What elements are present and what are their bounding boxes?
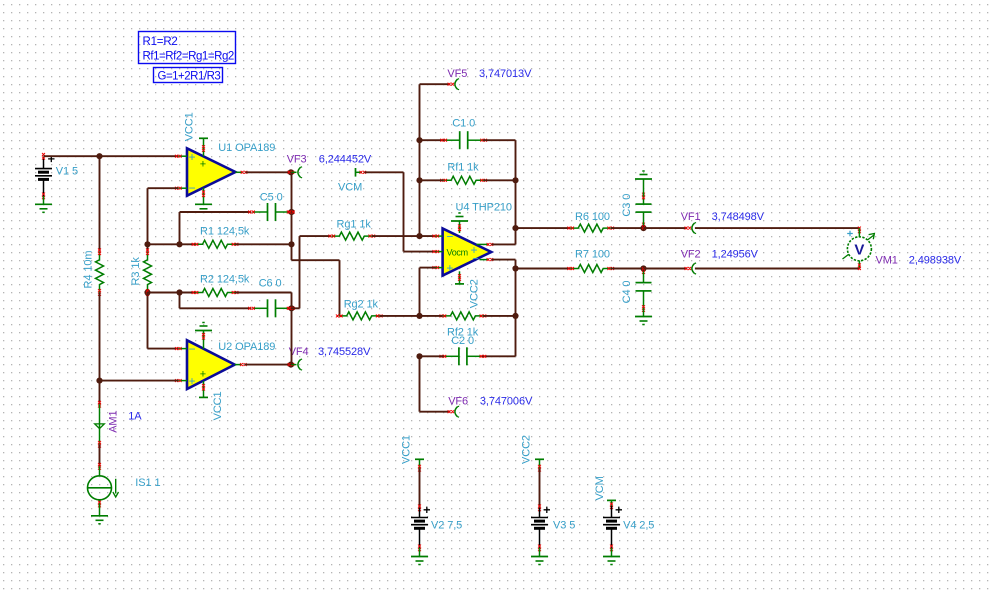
svg-text:VF6: VF6 bbox=[448, 395, 468, 407]
current source IS1 bbox=[88, 463, 161, 507]
wire to R2 bbox=[148, 292, 196, 294]
wire R6 to VF1 bbox=[611, 227, 644, 229]
U2 VCC1 flag bbox=[199, 381, 224, 420]
wire Rf2 leads bbox=[420, 315, 516, 317]
voltage source V4 bbox=[594, 476, 655, 551]
capacitor C5 bbox=[248, 191, 293, 221]
Rf2 label C2 bbox=[451, 335, 474, 347]
AM1 value bbox=[128, 410, 142, 422]
svg-text:U4 THP210: U4 THP210 bbox=[456, 201, 512, 213]
U4 input pins bbox=[433, 235, 443, 270]
svg-text:VCC1: VCC1 bbox=[184, 112, 196, 141]
svg-text:G=1+2R1/R3: G=1+2R1/R3 bbox=[158, 71, 221, 83]
svg-text:VF5: VF5 bbox=[447, 68, 467, 80]
svg-text:1,24956V: 1,24956V bbox=[712, 248, 759, 260]
svg-text:−: − bbox=[189, 342, 196, 356]
ground at V1 bbox=[35, 196, 52, 212]
wire R7 row bbox=[516, 268, 571, 270]
wire R2 right bbox=[235, 293, 292, 309]
ground at V2 bbox=[411, 548, 428, 565]
wire AM1 to IS1 bbox=[99, 444, 101, 466]
junction C3 bbox=[640, 223, 646, 232]
wire U1 out to VF3 bbox=[246, 171, 291, 173]
wire R6 row bbox=[516, 227, 571, 229]
junction V1/R4 bbox=[96, 153, 102, 159]
junction C6 right bbox=[288, 305, 295, 311]
wire R3 to U2- bbox=[148, 293, 179, 349]
svg-text:−: − bbox=[446, 229, 453, 243]
svg-text:VCM: VCM bbox=[594, 476, 606, 500]
U2 label bbox=[218, 341, 275, 353]
voltage source V3 bbox=[520, 435, 575, 551]
wire R7 node down bbox=[515, 269, 517, 316]
VM1 labels bbox=[876, 254, 962, 266]
U2 output pin bbox=[235, 363, 247, 366]
voltage pin VF5 bbox=[448, 79, 460, 90]
U1 label bbox=[218, 142, 275, 154]
resistor R7 bbox=[567, 248, 614, 272]
svg-text:−: − bbox=[472, 253, 478, 265]
capacitor C4 bbox=[621, 272, 651, 312]
voltage source V1 bbox=[35, 153, 78, 199]
svg-text:VF1: VF1 bbox=[681, 211, 701, 223]
wire U4+ from Rg2 node bbox=[420, 268, 436, 316]
svg-text:+: + bbox=[200, 159, 206, 171]
wire C6 branch bbox=[180, 293, 252, 309]
inverted ground at C3 bbox=[635, 171, 652, 196]
wire VCM to Vocm bbox=[365, 172, 436, 251]
svg-text:C4 0: C4 0 bbox=[621, 281, 633, 304]
svg-text:R6 100: R6 100 bbox=[575, 211, 610, 223]
inverted ground at U2 bbox=[195, 323, 212, 349]
wire crossover to Rg1 bbox=[292, 236, 332, 308]
svg-text:R7 100: R7 100 bbox=[575, 248, 610, 260]
ammeter AM1 bbox=[95, 401, 120, 448]
wire out- to node bbox=[492, 228, 516, 244]
wire C4 to VF2 bbox=[644, 268, 688, 270]
U1 input pins bbox=[175, 155, 187, 190]
svg-text:VF3: VF3 bbox=[287, 154, 307, 166]
svg-text:6,244452V: 6,244452V bbox=[319, 154, 372, 166]
wire R4 to U2+ junction bbox=[99, 292, 101, 404]
wire U1- to R3 bbox=[148, 188, 179, 244]
svg-text:−: − bbox=[189, 181, 196, 195]
svg-text:V4 2,5: V4 2,5 bbox=[623, 519, 654, 531]
wire Rg1 to U4- bbox=[372, 235, 436, 237]
VCM net flag bbox=[338, 168, 366, 193]
svg-text:AM1: AM1 bbox=[108, 410, 120, 432]
svg-text:3,747006V: 3,747006V bbox=[480, 395, 533, 407]
svg-text:3,745528V: 3,745528V bbox=[318, 346, 371, 358]
svg-text:Rf1 1k: Rf1 1k bbox=[447, 162, 479, 174]
junction C5 right bbox=[288, 209, 295, 215]
resistor R1 bbox=[192, 225, 250, 248]
wire out+ to node bbox=[492, 260, 516, 269]
wire VF5 node bbox=[420, 84, 451, 236]
capacitor C2 bbox=[440, 347, 487, 365]
wire Rf1 node down bbox=[515, 180, 517, 228]
VF4 labels bbox=[289, 346, 371, 358]
voltage source V2 bbox=[400, 435, 462, 551]
svg-text:VCC1: VCC1 bbox=[400, 435, 412, 464]
svg-text:VCM: VCM bbox=[338, 181, 362, 193]
voltage pin VF4 bbox=[291, 359, 302, 370]
ground at V4 bbox=[603, 548, 620, 565]
capacitor C3 bbox=[621, 193, 651, 225]
junction R6 node bbox=[512, 225, 518, 231]
junction R3 bottom bbox=[144, 289, 150, 296]
U2 power plus sign bbox=[200, 369, 206, 381]
U4 minus sign bbox=[446, 229, 453, 243]
svg-text:V1 5: V1 5 bbox=[56, 165, 78, 177]
wire R1 right bbox=[235, 243, 292, 245]
ground at U1 bbox=[195, 188, 212, 213]
VF1 labels bbox=[681, 211, 765, 223]
junction Rf1 left bbox=[416, 177, 422, 183]
svg-text:Rg2 1k: Rg2 1k bbox=[344, 298, 379, 310]
capacitor C1 bbox=[440, 117, 487, 149]
op-amp U1 bbox=[187, 148, 235, 195]
wire U2 out to VF4 bbox=[245, 364, 291, 366]
svg-text:C2 0: C2 0 bbox=[451, 335, 474, 347]
svg-text:2,498938V: 2,498938V bbox=[909, 254, 962, 266]
svg-text:VCC2: VCC2 bbox=[468, 279, 480, 308]
capacitor C6 bbox=[248, 277, 293, 317]
junction C5/R1 bbox=[176, 241, 182, 247]
U4 VCC2 flag bbox=[455, 271, 480, 308]
U2 input pins bbox=[175, 347, 187, 382]
note box gain formula bbox=[154, 68, 223, 83]
svg-text:C5 0: C5 0 bbox=[260, 191, 283, 203]
wire Rg2 right bbox=[379, 315, 419, 317]
wire V1 to U1+ bbox=[44, 155, 179, 157]
voltage pin VF3 bbox=[291, 167, 302, 178]
svg-text:3,748498V: 3,748498V bbox=[712, 211, 765, 223]
voltage pin VF6 bbox=[448, 406, 460, 417]
svg-text:C1 0: C1 0 bbox=[452, 117, 475, 129]
op-amp U2 bbox=[187, 340, 235, 389]
wire VF2 to VM1 bbox=[695, 268, 860, 270]
ground at V3 bbox=[531, 548, 548, 565]
VF2 labels bbox=[681, 248, 759, 260]
svg-text:R3 1k: R3 1k bbox=[130, 257, 142, 286]
resistor R2 bbox=[192, 273, 250, 296]
inverted ground at U4 top bbox=[451, 213, 468, 233]
junction Rg2/Rf2/U4+ bbox=[416, 313, 422, 319]
svg-text:3,747013V: 3,747013V bbox=[479, 68, 532, 80]
VF6 labels bbox=[448, 395, 533, 407]
junction Rg1/Rf1/U4- bbox=[416, 233, 422, 239]
U4 out plus sign bbox=[471, 243, 478, 257]
junction R3 top bbox=[144, 241, 150, 247]
VF5 labels bbox=[447, 68, 532, 80]
U4 label bbox=[456, 201, 512, 213]
junction C2 left bbox=[416, 353, 422, 359]
U4 plus sign bbox=[446, 261, 453, 275]
svg-text:R2 124,5k: R2 124,5k bbox=[200, 273, 250, 285]
svg-text:R4 10m: R4 10m bbox=[83, 251, 95, 289]
svg-text:+: + bbox=[189, 150, 196, 164]
svg-text:1A: 1A bbox=[128, 410, 142, 422]
op-amp U4 bbox=[443, 229, 492, 276]
svg-text:V: V bbox=[854, 242, 864, 259]
svg-text:Rf1=Rf2=Rg1=Rg2: Rf1=Rf2=Rg1=Rg2 bbox=[143, 51, 234, 63]
U4 output pins bbox=[477, 243, 494, 261]
wire Rf2 node to C2 bbox=[482, 316, 516, 356]
U1 minus sign bbox=[189, 181, 196, 195]
U2 plus sign bbox=[189, 374, 196, 388]
U4 out minus sign bbox=[472, 253, 478, 265]
junction VF4 bbox=[288, 362, 295, 368]
svg-text:+: + bbox=[446, 261, 453, 275]
resistor Rf1 bbox=[440, 162, 487, 185]
resistor Rf2 bbox=[440, 312, 487, 338]
svg-text:VF2: VF2 bbox=[681, 248, 701, 260]
wire C2 left bbox=[420, 355, 444, 357]
U4 Vocm text bbox=[447, 247, 468, 257]
note box formulas bbox=[139, 32, 236, 64]
VF3 labels bbox=[287, 154, 372, 166]
svg-text:C3 0: C3 0 bbox=[621, 194, 633, 217]
wire VF6 node bbox=[420, 356, 451, 411]
wire VF1 to VM1 bbox=[695, 227, 860, 229]
wire VF3 node down bbox=[291, 172, 293, 260]
junction R1 right bbox=[288, 241, 294, 247]
voltage pin VF2 bbox=[685, 263, 697, 274]
voltage pin VF1 bbox=[685, 223, 697, 234]
wire C1 left bbox=[420, 139, 445, 141]
wire C1 right bbox=[483, 140, 516, 180]
wire C5 branch bbox=[180, 212, 252, 244]
svg-text:VM1: VM1 bbox=[876, 254, 898, 266]
U1 power plus sign bbox=[200, 159, 206, 171]
resistor R6 bbox=[567, 211, 614, 232]
voltmeter VM1 bbox=[843, 227, 875, 270]
svg-text:+: + bbox=[200, 369, 206, 381]
svg-text:U1 OPA189: U1 OPA189 bbox=[218, 142, 275, 154]
resistor Rg1 bbox=[329, 218, 376, 240]
junction R4/U2+ bbox=[96, 378, 102, 384]
U1 output pin bbox=[235, 171, 247, 174]
wire to R1 bbox=[148, 243, 196, 245]
junction VF3 bbox=[288, 169, 295, 175]
svg-text:+: + bbox=[189, 374, 196, 388]
svg-text:V2 7,5: V2 7,5 bbox=[431, 519, 462, 531]
wire junction to U2+ bbox=[100, 380, 179, 382]
wire VF4 node up bbox=[291, 308, 293, 364]
junction R7 node bbox=[512, 265, 518, 271]
U1 VCC1 flag bbox=[184, 112, 208, 156]
svg-text:VCC2: VCC2 bbox=[520, 435, 532, 464]
resistor Rg2 bbox=[336, 298, 383, 320]
junction Rf2 right bbox=[512, 313, 518, 319]
U2 minus sign bbox=[189, 342, 196, 356]
svg-text:R1 124,5k: R1 124,5k bbox=[200, 225, 250, 237]
svg-text:R1=R2: R1=R2 bbox=[143, 36, 178, 48]
junction C6/R2 bbox=[176, 289, 182, 295]
wire Rf1 leads bbox=[420, 179, 516, 181]
svg-text:Vocm: Vocm bbox=[447, 247, 468, 257]
svg-text:U2 OPA189: U2 OPA189 bbox=[218, 341, 275, 353]
svg-text:V3 5: V3 5 bbox=[553, 519, 575, 531]
junction C4 bbox=[640, 265, 646, 274]
wire to R4 bbox=[99, 156, 101, 252]
svg-text:Rg1 1k: Rg1 1k bbox=[337, 218, 372, 230]
svg-text:VCC1: VCC1 bbox=[212, 391, 224, 420]
junction C1 left bbox=[416, 137, 422, 143]
junction Rf1 right bbox=[512, 177, 518, 183]
wire C3 to VF1 bbox=[644, 227, 688, 229]
resistor R3 bbox=[130, 244, 151, 295]
wire crossover to Rg2 bbox=[292, 260, 340, 316]
U1 plus sign bbox=[189, 150, 196, 164]
resistor R4 bbox=[83, 249, 104, 296]
ground at IS1 bbox=[91, 504, 108, 524]
svg-text:IS1 1: IS1 1 bbox=[135, 477, 160, 489]
ground at C4 bbox=[635, 309, 652, 325]
wire R7 to VF2 bbox=[611, 268, 644, 270]
svg-text:C6 0: C6 0 bbox=[259, 277, 282, 289]
